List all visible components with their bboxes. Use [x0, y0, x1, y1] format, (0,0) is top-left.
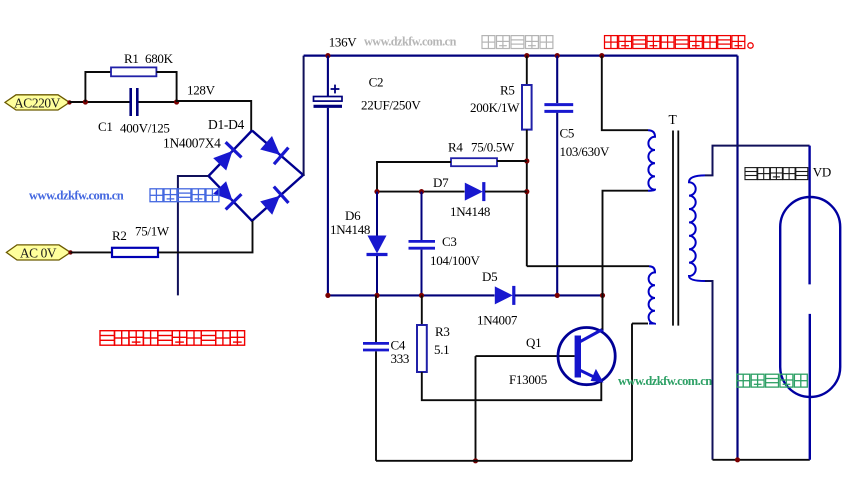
junction top bus / C5: [555, 53, 560, 58]
svg-text:200K/1W: 200K/1W: [470, 100, 520, 115]
wire C3 bottom to ground bus: [421, 250, 423, 296]
junction bus/collector: [600, 293, 605, 298]
wire secondary top to tube electrode: [705, 146, 810, 176]
transformer T primary winding: [648, 130, 655, 191]
svg-text:22UF/250V: 22UF/250V: [361, 98, 421, 113]
svg-text:C2: C2: [369, 75, 384, 90]
svg-text:D6: D6: [345, 208, 361, 223]
wire bridge right corner up to 136V bus: [302, 56, 304, 175]
junction R5/D7 cathode: [524, 189, 529, 194]
resistor R4: [451, 158, 497, 166]
svg-text:136V: 136V: [329, 35, 358, 50]
svg-text:AC220V: AC220V: [14, 95, 61, 110]
svg-text:680K: 680K: [145, 51, 174, 66]
wire top bus to C5: [556, 56, 558, 103]
wire D7 anode: [377, 191, 465, 193]
transformer T feedback winding: [649, 266, 655, 323]
svg-text:F13005: F13005: [509, 372, 547, 387]
svg-text:D1-D4: D1-D4: [208, 117, 245, 132]
resistor R1: [111, 67, 156, 76]
capacitor C5: [544, 105, 573, 112]
watermark top center: [364, 35, 553, 49]
capacitor C1: [131, 88, 138, 116]
svg-text:Q1: Q1: [526, 335, 541, 350]
junction R5/R4: [524, 158, 529, 163]
ozone tube VD envelope: [780, 197, 840, 397]
wire negative bus right section: [515, 294, 603, 296]
wire C2 to ground bus: [327, 108, 329, 296]
wire base of Q1: [476, 355, 575, 357]
wire R1 left branch: [85, 72, 111, 102]
wire 128V node to bridge top: [177, 101, 252, 131]
svg-text:VD: VD: [813, 165, 831, 180]
svg-text:1N4007: 1N4007: [477, 313, 518, 328]
wire C3 top: [421, 192, 423, 240]
watermark left middle: [29, 189, 219, 203]
svg-text:R4: R4: [448, 140, 463, 155]
wire feedback winding bottom: [632, 323, 648, 325]
red note: flyback topology annotation: [605, 36, 754, 49]
wire C4 to base return: [375, 351, 377, 460]
wire secondary bottom: [705, 281, 713, 460]
transformer T core: [673, 131, 678, 326]
wire D6 anode: [376, 192, 378, 236]
wire D6 node through C4 branch: [375, 295, 377, 342]
bridge rectifier D1-D4 diamond: [209, 131, 304, 221]
wire primary bottom to collector rail: [603, 191, 649, 296]
label ozone tube (Chinese): [745, 168, 757, 180]
net label AC 0V: [6, 245, 70, 260]
resistor R5: [522, 85, 532, 130]
diode D3 bottom-left of bridge: [213, 181, 241, 209]
junction tube return / bus leg: [735, 457, 740, 462]
junction top bus / R5: [524, 53, 529, 58]
svg-text:C3: C3: [442, 234, 457, 249]
diode D2 top-right of bridge: [260, 136, 288, 164]
diode D5: [495, 286, 514, 305]
ozone tube top electrode: [808, 146, 810, 285]
transistor Q1: [558, 328, 615, 385]
wire D7 cathode to R5 rail: [485, 191, 527, 193]
resistor R3: [417, 325, 427, 372]
junction bus/C2: [325, 293, 330, 298]
wire AC220V to C1 left plate: [70, 101, 131, 103]
junction node R1/C1 left: [83, 99, 88, 104]
diode D7: [465, 182, 484, 201]
red title: ozone generator schematic (Chinese): [100, 331, 115, 346]
junction at AC220V tag tip: [67, 100, 71, 104]
wire tube bottom return: [713, 459, 810, 461]
diode D6: [367, 236, 388, 255]
wire top bus right leg down to tube return: [736, 56, 738, 460]
wire negative bus left section: [328, 294, 495, 296]
svg-text:400V/125: 400V/125: [120, 121, 170, 136]
ozone tube bottom electrode: [809, 314, 811, 460]
svg-text:5.1: 5.1: [434, 342, 449, 357]
wire top bus to primary top: [602, 56, 648, 131]
junction top bus / C2: [325, 53, 330, 58]
svg-text:C5: C5: [560, 126, 575, 141]
wire R2 to bridge bottom corner: [158, 221, 253, 253]
wire C5 to ground bus: [556, 113, 558, 296]
svg-text:AC 0V: AC 0V: [20, 245, 57, 260]
watermark bottom right: [618, 374, 807, 388]
junction bus/C5: [555, 293, 560, 298]
svg-text:333: 333: [391, 351, 410, 366]
junction bus/C3-R3: [419, 293, 424, 298]
svg-text:D7: D7: [433, 175, 449, 190]
net label AC220V: [5, 95, 70, 111]
junction node 128V: [174, 99, 179, 104]
wire bottom return up to feedback winding: [631, 324, 633, 461]
wire bottom return: [376, 460, 632, 462]
wire AC 0V to R2: [71, 251, 113, 253]
capacitor C4: [363, 343, 389, 350]
junction D6/D7/R4 node: [374, 189, 379, 194]
wire collector of Q1: [602, 295, 604, 329]
wire C1 right plate to 128V node: [138, 101, 178, 103]
svg-text:C1: C1: [98, 119, 113, 134]
transformer T secondary winding: [689, 175, 705, 281]
wire bridge left corner to ground rail: [178, 176, 209, 295]
wire snubber node to feedback winding: [527, 265, 649, 267]
diode D1 top-left of bridge: [213, 142, 241, 170]
svg-text:R2: R2: [112, 228, 127, 243]
svg-text:103/630V: 103/630V: [560, 144, 611, 159]
svg-text:www.dzkfw.com.cn: www.dzkfw.com.cn: [29, 189, 124, 203]
wire top bus to C2: [327, 56, 329, 97]
wire D6 cathode to ground bus: [376, 256, 378, 295]
capacitor C3: [409, 241, 436, 248]
wire R5 to R4/D7 node: [526, 130, 528, 267]
diode D4 bottom-right of bridge: [260, 187, 288, 215]
wire R1 right branch: [156, 72, 176, 102]
capacitor C2 polarized: [314, 85, 343, 107]
svg-text:128V: 128V: [187, 83, 216, 98]
wire 136V top bus: [304, 54, 738, 56]
wire R3 top: [421, 295, 423, 325]
svg-text:1N4148: 1N4148: [450, 204, 490, 219]
wire R4 right to R5 rail: [497, 160, 527, 162]
junction top bus / primary: [599, 53, 604, 58]
junction at AC 0V tag tip: [68, 250, 72, 254]
wire top bus to R5: [526, 56, 528, 85]
resistor R2: [112, 248, 158, 257]
svg-text:T: T: [669, 112, 678, 127]
svg-text:R1: R1: [124, 51, 139, 66]
svg-text:D5: D5: [482, 269, 497, 284]
svg-text:75/1W: 75/1W: [135, 224, 170, 239]
junction base return / bottom wire: [473, 458, 478, 463]
svg-text:R3: R3: [435, 324, 450, 339]
wire R3 bottom to emitter: [422, 372, 602, 400]
svg-text:75/0.5W: 75/0.5W: [471, 140, 515, 155]
svg-text:www.dzkfw.com.cn: www.dzkfw.com.cn: [364, 35, 457, 49]
wire base return to feedback: [475, 356, 477, 461]
svg-text:www.dzkfw.com.cn: www.dzkfw.com.cn: [618, 374, 712, 388]
wire R4 left to D6 anode rail: [377, 162, 451, 192]
svg-text:R5: R5: [500, 83, 515, 98]
junction bus/D6: [374, 293, 379, 298]
junction D7/C3 node: [419, 189, 424, 194]
svg-text:1N4007X4: 1N4007X4: [163, 136, 221, 151]
svg-text:104/100V: 104/100V: [430, 253, 481, 268]
svg-text:1N4148: 1N4148: [330, 222, 370, 237]
